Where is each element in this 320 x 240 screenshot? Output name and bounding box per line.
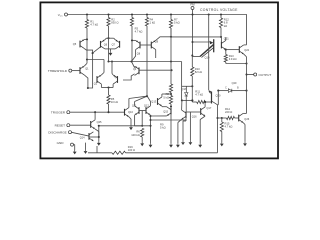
svg-text:TRIGGER: TRIGGER — [51, 110, 66, 114]
transistor Q25 — [90, 121, 92, 128]
transistor Q20 — [211, 92, 213, 104]
ground Q12 drop — [150, 143, 152, 145]
wire Q11-Q12 base tie — [139, 110, 146, 112]
resistor R7 — [170, 15, 172, 20]
svg-text:Q4: Q4 — [133, 68, 137, 71]
node diode left — [217, 90, 219, 92]
transistor Q22 — [238, 46, 240, 53]
resistor R3 — [131, 15, 133, 18]
wire Q25-Q14 node — [98, 126, 100, 137]
ground Q16 drop — [177, 143, 179, 145]
wire Q10 emitter — [129, 117, 131, 119]
FM pin — [191, 7, 194, 10]
svg-text:Q6: Q6 — [104, 43, 108, 46]
wire Q1 emitter up — [84, 63, 87, 66]
wire Q12 emitter — [150, 102, 152, 106]
resistor R12 — [220, 15, 222, 18]
wire Q11 collector — [134, 115, 136, 126]
svg-text:GND: GND — [57, 141, 65, 145]
transistor Q12 — [145, 107, 147, 114]
ground R15 — [221, 142, 223, 144]
wire bottom rail right — [126, 152, 218, 154]
transistor Q19 — [193, 41, 210, 43]
resistor R6 — [141, 128, 144, 137]
ground Q26 — [244, 142, 246, 144]
wire Q6 base bias — [93, 47, 101, 53]
svg-text:Q3: Q3 — [115, 76, 119, 79]
svg-text:Q5: Q5 — [73, 42, 77, 46]
svg-text:VCC: VCC — [58, 13, 63, 18]
transistor Q17 — [200, 108, 202, 115]
wire cross drop — [189, 112, 191, 141]
wire R11-Q20 base — [205, 101, 211, 103]
frame border — [40, 2, 278, 158]
transistor Q6 — [100, 41, 102, 48]
wire mirror column — [108, 26, 110, 38]
wire Q25 collector — [94, 112, 96, 120]
ground cross drop — [189, 141, 191, 143]
svg-text:4.7 kΩ: 4.7 kΩ — [225, 125, 233, 129]
wire Q21 collector — [225, 37, 227, 40]
resistor R15 — [220, 122, 223, 132]
resistor R16 — [112, 151, 126, 154]
resistor R10 — [191, 54, 193, 56]
wire Q17 collector — [204, 102, 206, 107]
svg-text:10 kΩ: 10 kΩ — [111, 100, 118, 104]
svg-text:Q29: Q29 — [232, 82, 237, 85]
wire Q8 collector — [132, 50, 136, 62]
svg-text:Q1: Q1 — [85, 68, 89, 71]
wire R13 down — [225, 62, 227, 64]
wire Q16 base — [151, 119, 187, 121]
svg-text:Q9: Q9 — [155, 41, 159, 44]
transistor Q13 — [157, 98, 159, 105]
wire Q22 ce — [244, 44, 247, 46]
transistor Q10 — [124, 109, 126, 116]
svg-text:4.7 kΩ: 4.7 kΩ — [195, 92, 203, 96]
resistor R8 — [169, 84, 172, 93]
transistor Q4 — [138, 67, 140, 74]
svg-text:Q2: Q2 — [94, 82, 98, 85]
transistor Q26 — [238, 115, 240, 122]
node rail-R2 — [107, 13, 109, 15]
ground Q14 — [85, 150, 87, 152]
wire Q17 emitter — [200, 116, 205, 119]
wire Q4 emitter up — [132, 62, 135, 68]
wire Q14 emitter — [85, 143, 87, 150]
wire Q9 emitter — [156, 37, 171, 41]
wire Q4 collector — [123, 74, 135, 80]
transistor Q1 — [79, 67, 81, 74]
wire Q16 collector — [181, 100, 183, 110]
svg-text:Q21: Q21 — [224, 37, 229, 41]
node rail-R3 — [131, 13, 133, 15]
svg-text:830 Ω: 830 Ω — [111, 21, 118, 25]
wire Q14 collector — [89, 136, 99, 138]
wire Q10 collector — [128, 99, 130, 108]
resistor R2 — [108, 15, 110, 18]
svg-text:100 Ω: 100 Ω — [128, 148, 135, 152]
wire gnd — [74, 144, 75, 146]
wire Q22 base — [226, 49, 240, 51]
wire Q13 emitter — [161, 105, 163, 108]
ground Q10 — [130, 126, 132, 128]
wire Q13 collector — [161, 94, 163, 97]
ground Q17 drop — [199, 143, 201, 145]
transistor Q2 — [96, 76, 98, 83]
svg-text:Q22: Q22 — [244, 48, 249, 52]
wire Q20 collector down — [217, 105, 219, 118]
wire Vcc rail — [68, 15, 247, 45]
node rail-R4 — [146, 13, 148, 15]
svg-text:1 kΩ: 1 kΩ — [150, 21, 156, 25]
wire Q15 down — [170, 115, 172, 144]
transistor Q14 — [88, 133, 90, 140]
node rail-R7 — [170, 13, 172, 15]
transistor Q11 — [138, 107, 140, 114]
svg-text:Q25: Q25 — [97, 120, 102, 124]
svg-text:CONTROL VOLTAGE: CONTROL VOLTAGE — [200, 8, 238, 12]
wire Q15 collector — [162, 106, 167, 108]
transistor Q15 — [170, 108, 172, 115]
svg-text:82 kΩ: 82 kΩ — [195, 70, 202, 74]
wire ff cross — [182, 99, 192, 101]
svg-text:Q14: Q14 — [80, 137, 85, 140]
resistor R4 — [146, 15, 148, 18]
wire threshold-Q1 — [72, 70, 80, 72]
svg-text:Q19: Q19 — [205, 55, 210, 59]
transistor Q8 — [139, 42, 141, 49]
svg-text:C: C — [225, 87, 227, 89]
resistor R9 — [169, 96, 172, 105]
wire Q2 emitter — [101, 73, 104, 75]
wire control node — [109, 61, 182, 63]
node rail-R12 — [220, 13, 222, 15]
svg-text:Q16: Q16 — [192, 115, 197, 119]
transistor Q3 — [117, 76, 119, 83]
wire Q20c node link — [218, 117, 222, 119]
wire Q6-Q7 collectors — [105, 48, 111, 50]
svg-text:Q18: Q18 — [182, 89, 187, 91]
wire Q6 emitter — [105, 38, 107, 40]
wire Q1 collector — [84, 75, 88, 88]
wire reset-Q25 — [70, 124, 91, 126]
wire Q20c-diode — [217, 91, 219, 105]
svg-text:220 Ω: 220 Ω — [225, 110, 232, 114]
svg-text:Q10: Q10 — [128, 110, 133, 114]
wire ff in — [181, 62, 183, 101]
wire Q8-Q9 base tie — [140, 44, 151, 46]
wire Q16 bar drop — [185, 118, 187, 121]
wire Q25 emitter — [95, 129, 99, 132]
svg-text:OUTPUT: OUTPUT — [259, 73, 272, 77]
ground mirror — [110, 51, 112, 53]
wire Q2-Q3 collectors — [100, 84, 102, 87]
wire Q15 emitter tie — [151, 115, 167, 117]
wire Q16 emitter — [178, 119, 182, 122]
wire Q8 emitter — [132, 39, 136, 41]
svg-text:DISCHARGE: DISCHARGE — [48, 130, 66, 134]
resistor R13 — [224, 55, 227, 63]
svg-text:100 kΩ: 100 kΩ — [131, 133, 140, 137]
wire R7-Q21 base — [171, 36, 221, 38]
wire trigger — [70, 111, 125, 113]
transistor Q21 — [220, 42, 222, 49]
svg-text:Q7: Q7 — [112, 43, 116, 46]
svg-text:5 kΩ: 5 kΩ — [163, 95, 169, 99]
ground Q16 bar — [182, 141, 184, 143]
svg-text:Q13: Q13 — [151, 100, 156, 104]
ground pin a — [74, 150, 76, 152]
ground Q15 drop — [170, 143, 172, 145]
svg-text:Q8: Q8 — [137, 53, 141, 56]
output terminal — [247, 74, 254, 76]
svg-text:4.7 kΩ: 4.7 kΩ — [135, 30, 143, 34]
wire Q3 emitter — [112, 74, 113, 75]
svg-text:3.9 kΩ: 3.9 kΩ — [229, 57, 237, 61]
transistor Q16 — [185, 111, 187, 118]
Vcc terminal — [65, 13, 68, 16]
node diode right — [245, 90, 247, 92]
wire FM drop — [192, 10, 194, 57]
wire Q20 emitter rail — [208, 15, 210, 91]
wire Q4 base-control — [139, 69, 172, 71]
wire R10-R11 — [191, 100, 193, 102]
wire bottom rail left — [88, 152, 112, 154]
wire Q26 emitter — [243, 123, 245, 125]
svg-text:THRESHOLD: THRESHOLD — [48, 69, 68, 73]
wire Q11 emitter — [134, 102, 136, 106]
wire Q7 emitter — [114, 38, 116, 40]
transistor Q9 — [150, 42, 152, 49]
wire R12-Q21 — [220, 28, 222, 37]
transistor Q5 — [79, 41, 81, 48]
svg-text:FM: FM — [190, 3, 195, 7]
resistor R11 — [197, 100, 206, 103]
resistor R14 — [222, 117, 227, 119]
transistor Q7 — [119, 41, 121, 48]
node rail-R1 — [86, 13, 88, 15]
svg-text:Q15: Q15 — [163, 110, 168, 114]
wire output column — [246, 57, 248, 114]
svg-text:Q12: Q12 — [144, 103, 149, 107]
svg-text:Q26: Q26 — [244, 117, 249, 121]
resistor R1 — [86, 15, 88, 20]
svg-text:5 kΩ: 5 kΩ — [174, 21, 180, 25]
svg-text:B: B — [237, 87, 239, 89]
node rail-Q20 — [208, 13, 210, 15]
ground R6 — [141, 142, 143, 144]
wire Q14-mirror link — [99, 125, 151, 127]
svg-text:RESET: RESET — [55, 123, 65, 127]
wire Q5 collector — [84, 49, 92, 88]
ground Q14 collector — [98, 137, 100, 141]
svg-text:kΩ: kΩ — [224, 24, 227, 28]
node Q20 collector — [216, 117, 218, 119]
wire Q9 collector — [155, 50, 157, 58]
wire control-R8 — [170, 37, 172, 84]
svg-text:Q17: Q17 — [206, 106, 211, 110]
wire discharge-Q14 — [72, 132, 90, 136]
svg-text:5 kΩ: 5 kΩ — [160, 126, 166, 130]
wire Q5 emitter — [84, 38, 87, 40]
resistor R5 — [107, 95, 110, 104]
node Q12 taps — [149, 115, 151, 117]
wire Q16-Q17 cross — [186, 111, 201, 113]
wire Q26 collector — [243, 112, 246, 114]
wire Q12 collector — [149, 115, 151, 118]
svg-text:4.7 kΩ: 4.7 kΩ — [90, 23, 98, 27]
